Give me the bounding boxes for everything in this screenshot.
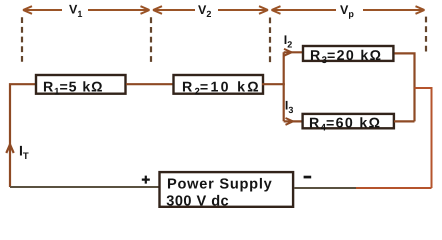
svg-text:300 V dc: 300 V dc (166, 193, 229, 209)
wire segment near minus terminal (294, 187, 356, 189)
arrow IT (6, 145, 13, 154)
wire output node to bottom right (415, 88, 432, 188)
V1 dimension arrow left segment (23, 6, 62, 14)
V1 dimension arrow right segment (88, 6, 150, 14)
svg-text:R1=5 kΩ: R1=5 kΩ (43, 79, 103, 97)
V2 dimension arrow right segment (218, 6, 268, 14)
wire: bottom run to power supply (10, 186, 160, 188)
power supply U1 (160, 172, 294, 207)
minus sign (304, 176, 312, 179)
wire bottom right to power supply minus (355, 187, 432, 189)
dashed marker line right (425, 17, 427, 52)
wire R1 to R2 (126, 83, 173, 85)
wire R3 right (395, 53, 415, 121)
wire: left loop from R1 down (10, 84, 36, 187)
resistor R3 (303, 46, 393, 61)
wire to R3 (284, 51, 302, 53)
dashed marker line 3 (269, 18, 271, 63)
wire R4 right (394, 120, 415, 122)
dashed marker line 2 (150, 17, 152, 62)
svg-text:Power Supply: Power Supply (167, 176, 273, 192)
plus sign (142, 176, 150, 184)
resistor R4 (303, 114, 394, 128)
svg-text:R2=10 kΩ: R2=10 kΩ (182, 79, 261, 97)
arrow I3 (286, 118, 294, 125)
resistor R2 (174, 75, 264, 94)
wire to R4 (284, 120, 302, 122)
arrow I2 (284, 49, 292, 56)
V2 dimension arrow left segment (153, 6, 195, 14)
svg-text:R3=20 kΩ: R3=20 kΩ (310, 48, 382, 66)
node A vertical wire (283, 52, 285, 121)
svg-text:R4=60 kΩ: R4=60 kΩ (309, 115, 381, 133)
resistor R1 (36, 75, 126, 94)
Vp dimension arrow left segment (272, 6, 337, 14)
Vp dimension arrow right segment (363, 6, 425, 14)
wire R2 to node A (262, 83, 285, 85)
dashed marker line left (21, 17, 23, 62)
